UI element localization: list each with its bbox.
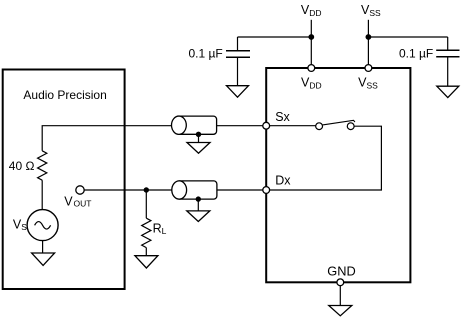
junction VSS rail — [366, 34, 372, 40]
junction coax bottom shield — [196, 196, 201, 201]
svg-text:GND: GND — [327, 264, 355, 279]
wire VSS rail to right capacitor — [368, 36, 447, 38]
ground VS — [32, 253, 55, 265]
ground C2 — [437, 86, 459, 97]
pin Dx — [263, 187, 270, 194]
wire C2 bottom — [447, 57, 449, 86]
wire Sx pin to switch — [266, 125, 316, 127]
coax top end ellipse — [172, 116, 187, 134]
box IC — [266, 68, 410, 282]
wire switch to right corner — [266, 126, 381, 190]
ground coax top — [187, 143, 210, 154]
wire coax bottom shield to ground — [197, 199, 199, 211]
pin VDD — [308, 65, 315, 72]
wire C2 top — [447, 37, 449, 50]
coax bottom body — [179, 181, 217, 199]
svg-text:40 Ω: 40 Ω — [9, 159, 35, 173]
pin GND — [337, 279, 344, 286]
wire coax top shield to ground — [198, 134, 200, 142]
switch contact right — [347, 123, 354, 130]
wire Sx coax to pin — [217, 125, 263, 127]
wire Sx from source corner to coax — [42, 126, 171, 151]
svg-text:0.1 µF: 0.1 µF — [189, 46, 223, 60]
capacitor C2 plates — [436, 50, 459, 57]
junction RL tap — [144, 187, 149, 192]
box Audio Precision — [3, 70, 125, 290]
junction VDD rail — [308, 34, 314, 40]
wire VDD rail to left capacitor — [238, 36, 312, 38]
resistor 40ohm — [38, 151, 47, 180]
ground RL — [135, 256, 158, 268]
switch lever — [323, 120, 355, 125]
pin VSS — [365, 65, 372, 72]
svg-text:0.1 µF: 0.1 µF — [399, 46, 433, 60]
wire C1 bottom — [237, 57, 239, 85]
capacitor C1 plates — [226, 51, 250, 58]
source VS circle — [27, 210, 58, 241]
switch contact left — [316, 123, 323, 130]
wire C1 top — [237, 37, 239, 50]
source VS sine — [35, 222, 51, 230]
wire VSS vertical stub — [367, 20, 369, 65]
junction coax top shield — [196, 132, 201, 137]
svg-text:Dx: Dx — [275, 174, 291, 188]
wire VDD vertical stub — [310, 20, 312, 65]
svg-text:Sx: Sx — [275, 110, 290, 124]
svg-text:OUT: OUT — [74, 199, 92, 209]
wire Dx coax to pin — [217, 189, 263, 191]
wire resistor to source — [41, 180, 43, 209]
ground GND — [329, 306, 352, 316]
wire RL tap down — [145, 190, 147, 218]
wire GND pin to ground — [339, 286, 341, 306]
terminal VOUT circle — [76, 186, 84, 194]
wire source to ground — [42, 241, 44, 253]
wire RL to ground — [145, 248, 147, 256]
pin Sx — [263, 122, 270, 129]
ground coax bottom — [187, 211, 210, 222]
ground C1 — [227, 86, 249, 98]
svg-text:Audio Precision: Audio Precision — [23, 88, 106, 102]
svg-text:V: V — [64, 194, 73, 208]
resistor RL — [142, 218, 151, 247]
coax top body — [179, 116, 217, 134]
coax bottom end ellipse — [172, 181, 187, 199]
wire Dx line from VOUT to coax — [84, 189, 171, 191]
